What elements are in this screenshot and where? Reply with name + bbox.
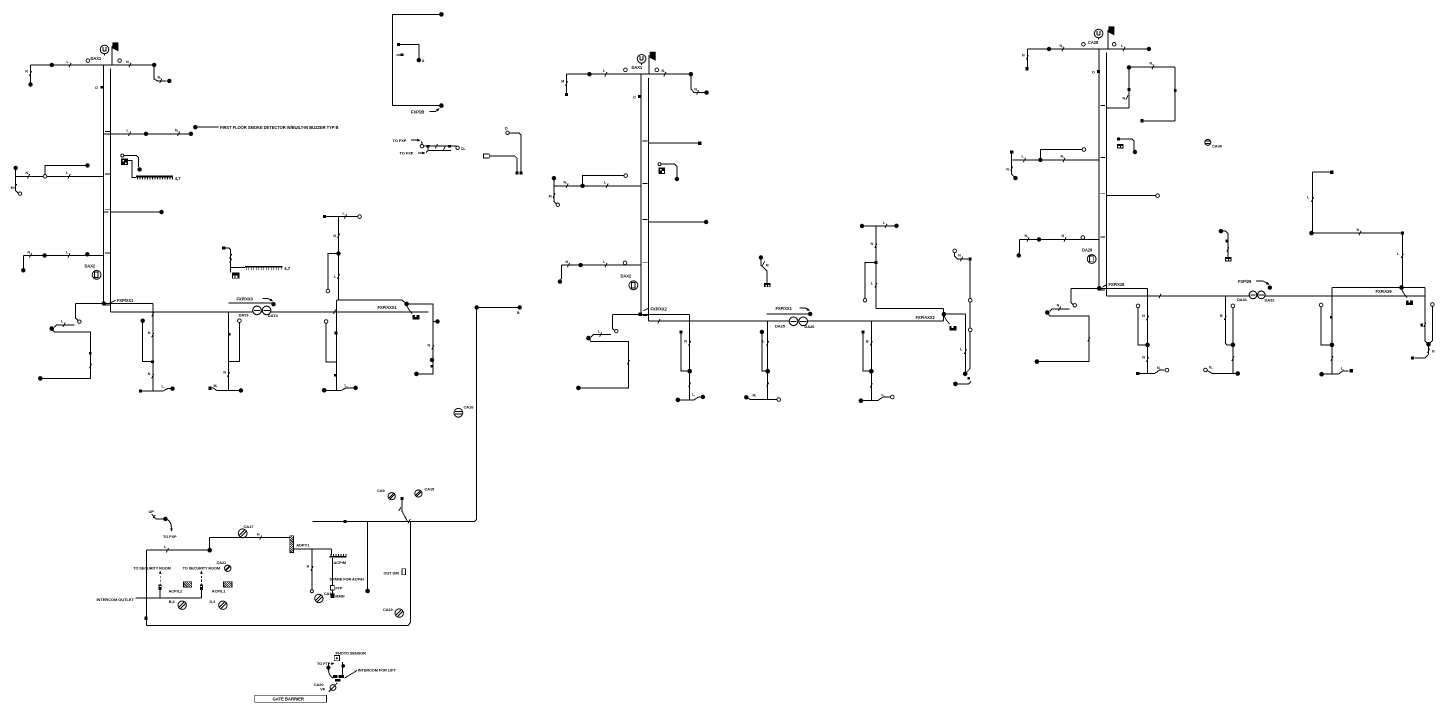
wire: branch 3 tail <box>554 186 556 204</box>
tick L <box>871 281 877 287</box>
drop dot <box>365 589 370 594</box>
svg-text:UP: UP <box>149 509 155 514</box>
companion circle <box>1319 303 1323 307</box>
bar end dot <box>170 386 174 390</box>
wire: branch 5 <box>23 255 103 257</box>
junction box B1 on riser <box>95 86 103 90</box>
wire: bus left tail <box>1071 288 1073 304</box>
wire: companion <box>681 333 690 371</box>
wire: companion <box>326 323 337 362</box>
svg-text:B,3: B,3 <box>169 600 175 604</box>
tick N <box>28 250 32 257</box>
label 4,7 <box>284 266 290 271</box>
arrowhead <box>170 529 173 532</box>
leader dot <box>193 125 197 129</box>
svg-text:N,: N, <box>1025 234 1029 238</box>
tick N <box>871 242 877 248</box>
tick M <box>11 184 17 190</box>
svg-text:N,: N, <box>1209 366 1212 370</box>
label L <box>345 384 348 388</box>
svg-text:TO FXP: TO FXP <box>393 138 407 143</box>
tail dot <box>558 279 562 283</box>
camera CA15 <box>415 490 422 497</box>
bar dot <box>953 382 958 387</box>
tick square <box>228 333 231 336</box>
wire: right edge <box>408 521 411 625</box>
tick L <box>334 274 340 279</box>
tick N <box>1142 356 1148 362</box>
bus top line <box>1071 287 1148 289</box>
wire: T-bar <box>1207 371 1236 374</box>
tick M <box>561 80 567 86</box>
svg-text:SPARE FOR ACP/H: SPARE FOR ACP/H <box>330 577 365 582</box>
wire: branch 3 upper spur <box>583 176 624 184</box>
bar end dot <box>353 386 357 390</box>
terminal block AB1 <box>121 159 128 166</box>
wire: box right link <box>944 313 966 315</box>
tick <box>90 364 92 368</box>
tick L <box>1397 252 1403 258</box>
end circle <box>358 215 362 219</box>
junction circle <box>43 175 47 179</box>
wire: main run upper <box>210 537 290 539</box>
wire: branch 4 <box>1106 195 1155 197</box>
tick <box>1088 337 1090 341</box>
device dot <box>137 167 141 171</box>
loop square <box>1127 88 1130 91</box>
label FXP/XX1 <box>776 306 793 311</box>
corner square <box>1401 232 1404 235</box>
wire: branch 3 <box>1013 159 1100 161</box>
wire: cross run <box>1312 232 1403 234</box>
wire: left vertical <box>1312 172 1314 231</box>
wire: feed <box>955 253 968 259</box>
wire: main run lower <box>146 549 209 551</box>
tick N <box>148 372 154 378</box>
tick N <box>1061 155 1066 162</box>
device circle <box>623 261 627 265</box>
bar end circle <box>777 398 781 402</box>
wire: companion <box>1138 308 1147 345</box>
label VF <box>320 687 326 692</box>
junction dot <box>1147 47 1151 51</box>
label FXP/AXX2 <box>916 315 936 320</box>
tick B <box>1220 314 1226 320</box>
svg-text:FTP: FTP <box>335 586 342 590</box>
wire: loop right <box>1174 67 1176 121</box>
gate barrier box <box>255 695 327 702</box>
label CA19 <box>383 607 394 612</box>
photo sensor box <box>334 656 339 661</box>
junction dot <box>144 132 148 136</box>
wire: loop vertical <box>1128 67 1130 107</box>
note: smoke detector type <box>220 125 338 130</box>
isolating transformer DA32 <box>1258 291 1266 299</box>
svg-text:A: A <box>422 59 425 63</box>
junction dot <box>869 369 874 374</box>
svg-text:CA28: CA28 <box>1088 40 1099 45</box>
companion dot <box>141 319 145 323</box>
label B,3 <box>169 600 175 604</box>
svg-text:CA30: CA30 <box>1212 144 1223 149</box>
wire: drop tail <box>967 332 971 373</box>
bar dot <box>322 388 327 393</box>
label ACP/L1 <box>212 589 227 594</box>
tick N <box>1150 62 1155 69</box>
wire: companion <box>1321 307 1332 345</box>
device dot <box>675 177 679 181</box>
resistor strip EOL-1 <box>136 176 173 180</box>
tick L <box>66 171 70 178</box>
tick L <box>343 211 347 218</box>
bus step <box>1147 288 1149 296</box>
companion circle <box>1231 304 1235 308</box>
label 4,7 <box>175 176 181 181</box>
label FXP/AXX1 <box>378 305 398 310</box>
outlet circle <box>86 59 90 63</box>
svg-text:FXP/A29: FXP/A29 <box>1376 289 1393 294</box>
tick M <box>549 193 555 198</box>
svg-text:M: M <box>561 80 564 84</box>
svg-text:FIRST FLOOR SMOKE DETECTOR W/B: FIRST FLOOR SMOKE DETECTOR W/BUILT-IN BU… <box>220 125 338 130</box>
label DA26 <box>804 324 815 329</box>
tick N <box>25 70 31 76</box>
detector bell DAX1 <box>100 45 109 56</box>
bar square <box>139 389 142 392</box>
tick <box>1227 247 1229 251</box>
outlet circle <box>1082 43 1086 47</box>
right dot <box>894 224 898 228</box>
wire: drop 1 main <box>689 321 691 400</box>
label TO FXP <box>163 534 177 539</box>
svg-text:TO SECURITY ROOM: TO SECURITY ROOM <box>133 567 170 571</box>
svg-text:TO FXP: TO FXP <box>163 534 177 539</box>
wire: right tie <box>509 133 521 172</box>
hatch plate <box>224 582 232 588</box>
loop circle <box>326 289 330 293</box>
tick L <box>399 507 401 511</box>
rail square <box>343 520 346 523</box>
junction dot <box>808 312 812 316</box>
tick N <box>158 76 162 83</box>
label ACP/M <box>334 560 347 565</box>
svg-text:ACP/L1: ACP/L1 <box>212 589 227 594</box>
junction dot <box>689 72 693 76</box>
label L <box>882 393 885 397</box>
end square <box>1411 356 1414 359</box>
bar circle <box>1204 368 1208 372</box>
outlet circle <box>1112 43 1116 47</box>
tick N <box>1142 314 1148 320</box>
wire: drop 2 main <box>767 321 769 399</box>
wire: main tail <box>964 314 966 372</box>
bus line B <box>1106 295 1425 297</box>
camera CA20 <box>329 683 338 692</box>
tick L <box>1307 196 1313 202</box>
wire: T-bar <box>1323 371 1349 374</box>
wire: top branch bus <box>1027 48 1149 50</box>
svg-text:4,7: 4,7 <box>284 266 290 271</box>
label DA25 <box>775 323 786 328</box>
wire: inner link <box>400 44 419 58</box>
tick L <box>67 60 72 67</box>
label FXP/29 <box>1238 279 1252 284</box>
rail tick <box>408 519 410 523</box>
junction square <box>151 360 154 363</box>
wire: tail lower run <box>43 329 91 379</box>
camera CA21 <box>225 565 231 571</box>
wire: T-bar <box>211 388 239 390</box>
bus top line <box>76 303 153 305</box>
wire: tail lower run <box>1039 313 1089 362</box>
junction dot <box>152 63 156 67</box>
tick N <box>26 171 30 178</box>
drop circle <box>310 590 313 593</box>
up arrow wire <box>152 514 156 519</box>
wire: branch 3 <box>16 175 104 177</box>
wire: T-bar <box>748 398 777 400</box>
wire: branch 2 <box>649 142 698 144</box>
top dot <box>439 12 444 17</box>
companion circle <box>324 320 328 324</box>
wire: left drop <box>1026 49 1028 67</box>
feeder dot <box>475 305 479 309</box>
companion square <box>861 330 864 333</box>
wire: drop 2 main <box>1232 308 1234 374</box>
bus step <box>689 314 691 321</box>
tick <box>435 144 437 148</box>
spur dot <box>85 163 89 167</box>
bar square <box>1136 372 1139 375</box>
junction dot <box>1268 285 1272 289</box>
tick square <box>89 352 92 355</box>
bus junction tick <box>152 312 154 316</box>
wire: main drop <box>338 217 340 301</box>
wire: to resistor strip <box>128 160 136 177</box>
svg-text:GATE BARRIER: GATE BARRIER <box>273 697 305 702</box>
wire: T-bar <box>862 397 890 400</box>
label GATE BARRIER <box>273 697 305 702</box>
bar dot <box>859 398 864 403</box>
wire: branch 3 upper spur <box>45 165 85 174</box>
tick L <box>127 129 131 136</box>
companion square <box>680 330 683 333</box>
wire: branch 5 left tail <box>1018 239 1020 253</box>
svg-text:N,: N, <box>1150 62 1154 66</box>
svg-text:FXP/X28: FXP/X28 <box>1109 282 1126 287</box>
wire: main drop <box>875 226 877 309</box>
device dot <box>1133 150 1137 154</box>
svg-text:ACP/L2: ACP/L2 <box>169 589 184 594</box>
wire: branch 4 <box>111 211 160 213</box>
terminal block UU1 <box>232 272 240 278</box>
wire: drop 2 main <box>228 312 230 391</box>
tick square <box>334 374 337 377</box>
top rail <box>313 520 476 522</box>
bar end square <box>1350 369 1353 372</box>
svg-text:L,: L, <box>692 393 695 397</box>
leader wire <box>197 126 219 128</box>
end dot <box>1035 359 1040 364</box>
svg-text:DA31: DA31 <box>1237 297 1248 302</box>
wire: link corner <box>331 549 333 555</box>
junction box B2 on riser <box>633 95 641 99</box>
label PHOTO SENSOR <box>336 651 367 656</box>
label L <box>692 393 695 397</box>
tail dot <box>1045 310 1050 315</box>
junction dot <box>336 251 340 255</box>
tick H <box>257 532 262 539</box>
tick square <box>1226 240 1229 243</box>
svg-text:FXP/XX1: FXP/XX1 <box>776 306 793 311</box>
wire: tail step <box>54 325 74 328</box>
junction dot <box>430 358 434 362</box>
sub-bus line <box>229 302 274 304</box>
loop dot <box>1127 65 1131 69</box>
call-point circle <box>658 163 661 166</box>
tick <box>1232 357 1234 361</box>
camera CA19 <box>395 609 403 617</box>
svg-text:N,: N, <box>158 76 162 80</box>
bottom square <box>519 171 522 174</box>
wire: panel link <box>294 548 332 550</box>
label ADPY1 <box>296 543 310 548</box>
wire: companion <box>229 323 240 362</box>
tick L <box>603 260 607 267</box>
wire: tie bar <box>424 145 457 147</box>
tick <box>627 360 629 364</box>
bus step <box>152 304 154 312</box>
tick L <box>164 545 168 552</box>
patch box <box>200 585 203 590</box>
svg-text:L,: L, <box>162 384 165 388</box>
isolating transformer DAT3 <box>789 317 798 326</box>
riser junction ticks <box>1100 105 1105 290</box>
tick L <box>604 181 608 188</box>
bus label FXP/XX1 <box>110 298 135 303</box>
label CA30 <box>1212 144 1223 149</box>
wire: branch 5 left tail <box>560 265 561 280</box>
svg-text:CA15: CA15 <box>425 486 436 491</box>
wire: lower tie <box>428 148 451 151</box>
svg-text:N,: N, <box>564 181 568 185</box>
label A <box>422 59 425 63</box>
tick N <box>333 234 339 238</box>
device dot <box>85 252 89 256</box>
svg-text:VF: VF <box>320 687 326 692</box>
svg-text:ADPY1: ADPY1 <box>296 543 310 548</box>
wire: feeder vertical <box>475 307 477 521</box>
device box M1 <box>407 306 420 320</box>
wire: branch 3 left stub <box>1011 154 1013 160</box>
flag terminal F1 <box>112 42 119 65</box>
svg-text:MAIN: MAIN <box>335 594 345 598</box>
label TO FXP <box>400 151 414 156</box>
svg-text:CA18: CA18 <box>324 591 335 596</box>
junction dot <box>1037 237 1041 241</box>
svg-text:M,: M, <box>214 384 218 388</box>
device dot <box>167 79 171 83</box>
strip source square <box>222 246 225 249</box>
tail dot <box>21 268 25 272</box>
source dot <box>552 176 556 180</box>
wire: sensor drop <box>327 663 329 668</box>
tick N <box>566 260 570 267</box>
source dot <box>14 166 18 170</box>
junction dot <box>942 312 947 317</box>
svg-text:INTERCOM FOR LIFT: INTERCOM FOR LIFT <box>358 668 397 673</box>
bar end circle <box>891 395 895 399</box>
svg-text:L,: L, <box>1341 366 1344 370</box>
label M <box>214 384 218 388</box>
label N <box>1209 366 1212 370</box>
bar dot <box>744 395 748 399</box>
svg-text:INTERCOM OUTLET: INTERCOM OUTLET <box>97 597 135 602</box>
bus junction tick <box>333 310 335 314</box>
tick L <box>1121 44 1125 51</box>
tick N <box>689 382 691 386</box>
riser junction ticks <box>105 131 110 305</box>
wire: loop bottom <box>1144 120 1176 122</box>
isolating transformer DAT4 <box>262 306 271 315</box>
junction dot <box>578 263 582 267</box>
svg-text:M: M <box>549 194 552 198</box>
camera CA18 <box>315 594 323 602</box>
junction dot <box>1399 285 1404 290</box>
inner dot <box>417 58 421 62</box>
stub <box>159 590 161 598</box>
tick square <box>335 332 338 335</box>
wire: companion <box>863 333 872 371</box>
tail square <box>968 377 971 380</box>
junction dot <box>1145 343 1150 348</box>
svg-text:DAX2: DAX2 <box>85 263 96 268</box>
svg-text:FXP/AXX2: FXP/AXX2 <box>916 315 936 320</box>
wire: side loop <box>328 253 339 289</box>
tail circle <box>556 203 559 206</box>
tick H <box>307 565 313 571</box>
bar end circle <box>1165 368 1169 372</box>
riser-bus junction square <box>639 313 642 316</box>
tick N <box>1062 234 1067 241</box>
bus line B <box>649 320 944 322</box>
svg-text:D,3: D,3 <box>210 600 216 604</box>
tick N <box>694 87 699 95</box>
sub-bus line <box>767 313 811 315</box>
wire: branch 3 <box>554 185 641 187</box>
wire: right drop <box>691 74 704 92</box>
label DAX2 <box>85 263 96 268</box>
tick <box>443 146 445 150</box>
wire: box right link <box>409 304 433 374</box>
riser-bus junction dot <box>1097 286 1102 291</box>
panel symbol DAX2 <box>629 281 638 290</box>
tick <box>1331 356 1333 360</box>
tick L <box>66 250 70 257</box>
wire: top run <box>1313 171 1332 173</box>
wire: T-bar <box>1139 370 1165 373</box>
tick N <box>428 343 435 349</box>
wire: tail step <box>1050 309 1070 312</box>
stub dot <box>341 664 345 668</box>
tick N <box>684 339 690 345</box>
wire: call-point link <box>124 156 139 167</box>
junction dot <box>1231 343 1236 348</box>
outlet circle <box>624 68 628 72</box>
wire: continues <box>969 302 971 328</box>
arrow tick <box>331 662 334 665</box>
device dot <box>28 82 32 86</box>
